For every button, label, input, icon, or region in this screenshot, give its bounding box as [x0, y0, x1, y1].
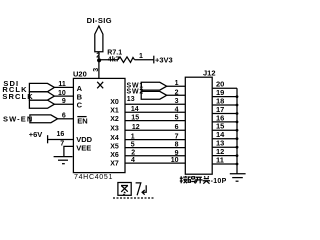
- resistor R7.1 zigzag: [118, 57, 135, 63]
- wire SRCLK to pin 9: [54, 103, 73, 105]
- svg-text:+6V: +6V: [29, 130, 43, 139]
- svg-text:X4: X4: [110, 135, 119, 142]
- svg-text:74HC4051: 74HC4051: [74, 174, 113, 181]
- wire DI-SIG to chip pin 3: [98, 52, 100, 79]
- wire SW2 to J12 pin2: [167, 94, 186, 96]
- svg-text:4k7: 4k7: [108, 57, 120, 64]
- glyph 关: [203, 176, 210, 184]
- svg-text:4: 4: [131, 157, 135, 164]
- faint dotted underline: [113, 197, 155, 199]
- J12 right pin 18 stub: [212, 104, 237, 106]
- J12 right pin 17 stub: [212, 113, 237, 115]
- glyph 码: [188, 177, 196, 183]
- svg-text:X3: X3: [110, 125, 119, 132]
- svg-text:3: 3: [93, 68, 100, 72]
- J12 right pin 20 stub: [212, 87, 237, 89]
- wire X4 pin 1 to J12 pin 7: [125, 139, 185, 141]
- svg-text:10: 10: [58, 90, 66, 97]
- wire X6 pin 2 to J12 pin 9: [125, 155, 185, 157]
- wire SDI to pin 11: [54, 86, 73, 88]
- wire SW1 to J12 pin1: [167, 85, 186, 87]
- ground bus (right): [236, 88, 238, 173]
- internal X common mark: [97, 82, 103, 89]
- text 7: [136, 183, 141, 195]
- connector pin DI-SIG (pentagon): [95, 26, 103, 52]
- svg-text:3: 3: [175, 98, 179, 105]
- svg-text:2: 2: [175, 89, 179, 96]
- port SW1: [141, 82, 167, 90]
- svg-text:6: 6: [62, 112, 66, 119]
- junction on ground bus: [236, 154, 239, 157]
- svg-text:SW-EN: SW-EN: [3, 114, 33, 123]
- svg-text:10: 10: [171, 157, 179, 164]
- svg-text:6: 6: [175, 124, 179, 131]
- ground symbol (right): [230, 173, 246, 175]
- svg-text:7: 7: [175, 134, 179, 141]
- port SRCLK: [29, 100, 54, 108]
- svg-text:J12: J12: [203, 69, 216, 78]
- wire SW-EN to pin 6: [58, 118, 74, 120]
- IC body 74HC4051: [73, 78, 125, 172]
- svg-text:1: 1: [175, 80, 179, 87]
- svg-text:-10P: -10P: [211, 178, 227, 185]
- connector type label (Chinese) 拨码开关-10P: [180, 176, 227, 185]
- svg-text:X7: X7: [110, 160, 119, 167]
- junction on ground bus: [236, 163, 239, 166]
- glyph 图 (boxed): [118, 183, 131, 196]
- J12 right pin 16 stub: [212, 121, 237, 123]
- svg-text:VEE: VEE: [76, 143, 91, 152]
- wire X7 pin 4 to J12 pin 10: [125, 162, 185, 164]
- svg-text:9: 9: [62, 98, 66, 105]
- svg-text:13: 13: [127, 96, 135, 103]
- svg-text:7: 7: [60, 141, 64, 148]
- junction on ground bus: [236, 121, 239, 124]
- wire X3 pin 12 to J12 pin 6: [125, 129, 185, 131]
- port SW-EN: [30, 115, 58, 123]
- svg-text:11: 11: [58, 81, 66, 88]
- svg-text:R7.1: R7.1: [107, 50, 122, 57]
- svg-text:16: 16: [57, 131, 65, 138]
- svg-text:14: 14: [131, 106, 139, 113]
- J12 right pin 14 stub: [212, 138, 237, 140]
- port RCLK: [29, 92, 54, 100]
- junction on ground bus: [236, 146, 239, 149]
- J12 right pin 11 stub: [212, 163, 237, 165]
- svg-text:X1: X1: [110, 108, 119, 115]
- glyph 开: [195, 177, 202, 183]
- svg-text:EN: EN: [77, 116, 87, 125]
- svg-text:X6: X6: [110, 152, 119, 159]
- svg-text:X0: X0: [110, 99, 119, 106]
- svg-text:1: 1: [139, 53, 143, 60]
- wire X5 pin 5 to J12 pin 8: [125, 147, 185, 149]
- glyph 拨: [180, 176, 187, 183]
- junction node: [97, 58, 101, 62]
- J12 right pin 15 stub: [212, 129, 237, 131]
- svg-text:12: 12: [132, 124, 140, 131]
- junction on ground bus: [236, 104, 239, 107]
- svg-text:11: 11: [216, 155, 224, 164]
- paragraph mark (gray): [142, 185, 146, 194]
- junction on ground bus: [236, 95, 239, 98]
- svg-text:1: 1: [131, 133, 135, 140]
- svg-text:X2: X2: [110, 116, 119, 123]
- svg-text:9: 9: [175, 150, 179, 157]
- wire RCLK to pin 10: [54, 95, 73, 97]
- figure caption 图 7: [113, 183, 155, 199]
- wire junction to resistor: [99, 59, 118, 61]
- svg-text:8: 8: [175, 142, 179, 149]
- svg-text:U20: U20: [73, 70, 87, 79]
- svg-text:15: 15: [131, 114, 139, 121]
- svg-text:+3V3: +3V3: [155, 56, 173, 65]
- junction on ground bus: [236, 129, 239, 132]
- wire X1 pin 14 to J12 pin 4: [125, 111, 185, 113]
- J12 right pin 19 stub: [212, 96, 237, 98]
- svg-text:5: 5: [131, 141, 135, 148]
- wire resistor to +3V3: [135, 59, 154, 61]
- ground symbol (left): [54, 156, 73, 158]
- connector J12 body: [185, 77, 212, 174]
- wire VEE pin 7 to ground: [64, 146, 74, 156]
- junction on ground bus: [236, 137, 239, 140]
- power port +3V3: [153, 56, 155, 64]
- port SW2: [141, 91, 167, 99]
- svg-text:DI-SIG: DI-SIG: [87, 16, 112, 25]
- svg-text:C: C: [77, 101, 83, 110]
- junction on ground bus: [236, 112, 239, 115]
- svg-text:5: 5: [175, 115, 179, 122]
- svg-text:4: 4: [175, 106, 179, 113]
- svg-text:X5: X5: [110, 143, 119, 150]
- port SDI: [29, 83, 54, 91]
- J12 right pin 13 stub: [212, 146, 237, 148]
- svg-text:2: 2: [131, 150, 135, 157]
- wire X2 pin 15 to J12 pin 5: [125, 120, 185, 122]
- J12 right pin 12 stub: [212, 155, 237, 157]
- wire +6V to pin 16: [48, 139, 74, 141]
- wire X0 pin 13 to J12 pin 3: [125, 103, 185, 105]
